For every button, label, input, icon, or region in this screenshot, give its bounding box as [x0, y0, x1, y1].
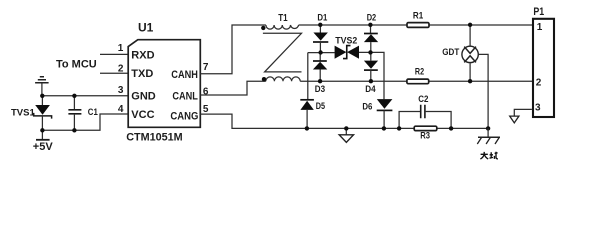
svg-text:D1: D1 — [317, 13, 327, 23]
svg-text:TXD: TXD — [131, 68, 153, 80]
svg-text:3: 3 — [118, 85, 124, 96]
svg-text:TVS2: TVS2 — [335, 36, 357, 47]
svg-text:D6: D6 — [362, 102, 372, 112]
svg-text:D2: D2 — [367, 13, 377, 23]
svg-text:CANL: CANL — [172, 90, 198, 102]
svg-text:C1: C1 — [88, 107, 99, 118]
svg-text:CANG: CANG — [170, 111, 198, 123]
svg-text:GDT: GDT — [442, 47, 459, 57]
svg-text:R1: R1 — [413, 11, 424, 22]
svg-text:TVS1: TVS1 — [11, 107, 35, 118]
svg-text:VCC: VCC — [131, 109, 154, 121]
svg-text:4: 4 — [118, 104, 124, 115]
svg-text:P1: P1 — [533, 6, 544, 18]
svg-text:U1: U1 — [138, 21, 154, 35]
svg-text:5: 5 — [203, 104, 209, 115]
svg-text:D4: D4 — [365, 84, 375, 94]
svg-text:1: 1 — [537, 22, 543, 33]
svg-text:2: 2 — [536, 78, 542, 89]
svg-text:CANH: CANH — [171, 69, 198, 81]
svg-text:1: 1 — [118, 43, 124, 54]
svg-text:6: 6 — [203, 86, 209, 97]
svg-text:D3: D3 — [315, 84, 325, 94]
svg-text:+5V: +5V — [33, 141, 54, 153]
svg-text:To MCU: To MCU — [56, 59, 97, 71]
svg-text:2: 2 — [118, 64, 124, 75]
svg-text:CTM1051M: CTM1051M — [126, 132, 183, 144]
svg-text:R2: R2 — [415, 67, 424, 78]
svg-text:RXD: RXD — [131, 49, 154, 61]
svg-text:7: 7 — [203, 62, 209, 73]
svg-text:C2: C2 — [418, 94, 428, 105]
svg-text:R3: R3 — [420, 131, 430, 142]
svg-text:3: 3 — [535, 102, 541, 113]
svg-text:GND: GND — [131, 91, 156, 103]
svg-text:T1: T1 — [278, 12, 288, 24]
svg-text:D5: D5 — [316, 101, 325, 111]
